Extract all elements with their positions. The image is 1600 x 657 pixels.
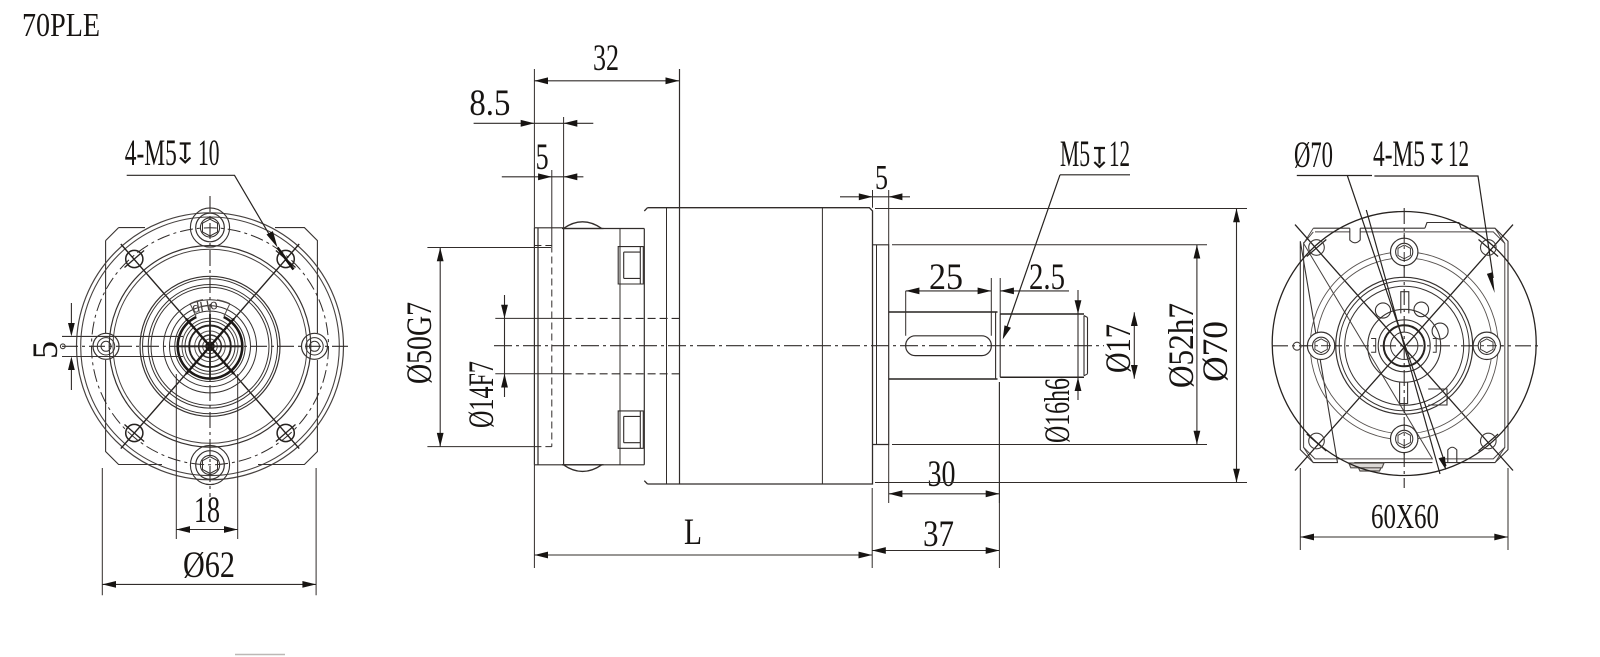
dim 2.5 xyxy=(999,278,1001,314)
dim dia62 xyxy=(102,468,316,595)
E boss screw xyxy=(1473,332,1500,359)
keyway on shaft xyxy=(906,336,992,356)
svg-text:4-M5: 4-M5 xyxy=(1373,134,1425,175)
front ring housing xyxy=(564,229,645,465)
leader dia70 xyxy=(1297,176,1446,467)
leader line for 4-M5 xyxy=(127,175,273,240)
gearbox body xyxy=(644,208,872,484)
screw dome top xyxy=(562,222,604,229)
output shaft dia16 xyxy=(1000,314,1084,377)
small holes on circle xyxy=(1375,303,1390,318)
corner tapped hole TR xyxy=(1481,240,1497,256)
bottom screw hole (socket head) xyxy=(190,445,229,484)
dim 37 xyxy=(998,382,1000,568)
corner hole cross ticks xyxy=(1307,240,1498,452)
diagonal X lines through M5 holes xyxy=(121,244,299,449)
dim dia17 xyxy=(1133,312,1135,378)
bolt circle (dash-dot) through screw holes xyxy=(92,228,329,465)
svg-text:70PLE: 70PLE xyxy=(22,7,100,44)
svg-text:5: 5 xyxy=(536,137,549,178)
dim 5 pilot xyxy=(873,190,889,245)
horizontal centerline xyxy=(62,345,352,347)
output pilot dia52 xyxy=(873,245,889,445)
outer flange circle (double line) xyxy=(77,213,344,480)
svg-text:5: 5 xyxy=(25,341,65,359)
svg-text:37: 37 xyxy=(923,514,954,555)
dim 8.5 xyxy=(474,122,594,124)
svg-text:10: 10 xyxy=(198,133,220,174)
dim 5 (slot) vertical at left xyxy=(70,303,72,390)
bottom edge notch xyxy=(1448,447,1457,462)
dim dia16h6 xyxy=(1077,290,1079,400)
M5 tapped hole bottom-left xyxy=(126,424,143,441)
boss centerline segments xyxy=(1403,233,1405,458)
boss circle (double line) xyxy=(109,245,311,447)
center hub circles xyxy=(140,276,280,416)
tiny hole left xyxy=(60,344,65,349)
thick cross hub segments xyxy=(178,314,242,379)
svg-text:60X60: 60X60 xyxy=(1371,497,1439,536)
housing circles xyxy=(1310,252,1498,440)
dim dia14F7 xyxy=(495,318,563,373)
dim 5 recess xyxy=(551,170,553,246)
axis centerline xyxy=(494,345,1104,347)
vertical centerline xyxy=(209,196,211,497)
output shaft dia17 xyxy=(889,312,998,379)
corner tapped hole TL xyxy=(1309,240,1325,256)
left screw hole xyxy=(93,333,119,359)
dim 18 xyxy=(176,374,237,539)
ext line flange back face up xyxy=(563,117,565,228)
M5 tapped hole top-right xyxy=(277,250,294,267)
big circle dia70 xyxy=(1272,212,1536,476)
M5 tapped hole top-left xyxy=(126,250,143,267)
dim 30 xyxy=(889,382,1000,503)
svg-text:Ø62: Ø62 xyxy=(183,545,235,586)
svg-text:30: 30 xyxy=(928,454,956,495)
svg-text:12: 12 xyxy=(1109,134,1130,175)
dim dia70 xyxy=(875,209,1247,483)
line body/ext 32 xyxy=(679,69,681,484)
S boss screw xyxy=(1391,425,1418,452)
svg-text:M5: M5 xyxy=(1060,134,1090,175)
screw dome bottom xyxy=(562,465,604,472)
notch box lower right xyxy=(1428,389,1447,405)
M5 hole cross ticks xyxy=(125,251,296,442)
svg-text:Ø70: Ø70 xyxy=(1195,321,1235,382)
bottom faint line xyxy=(235,654,285,656)
square plate outer edge xyxy=(1300,228,1508,462)
shaft step xyxy=(996,312,1001,379)
svg-text:Ø70: Ø70 xyxy=(1294,135,1333,176)
svg-text:Ø14F7: Ø14F7 xyxy=(461,361,501,428)
svg-text:L: L xyxy=(684,512,702,553)
dim dia50G7 xyxy=(427,248,551,447)
diagonal corner line 2 xyxy=(1295,225,1513,471)
keyway slot bottom xyxy=(1400,382,1408,404)
diagonal corner line 1 xyxy=(1295,225,1513,471)
svg-text:Ø50G7: Ø50G7 xyxy=(399,302,439,384)
small hole on centerline xyxy=(1293,342,1301,350)
N boss screw xyxy=(1391,238,1418,265)
svg-text:25: 25 xyxy=(929,257,963,298)
corner tapped hole BL xyxy=(1309,433,1325,449)
svg-text:2.5: 2.5 xyxy=(1029,257,1065,298)
screw section top xyxy=(618,247,643,284)
hidden recess dia50 edges xyxy=(534,246,551,447)
W boss screw xyxy=(1307,332,1334,359)
dim 25 keyway xyxy=(906,278,992,336)
square plate outline with chamfered corners xyxy=(106,228,318,465)
square plate inner edge xyxy=(1304,232,1505,459)
corner chamfer ticks xyxy=(1304,228,1505,462)
svg-text:Ø16h6: Ø16h6 xyxy=(1037,378,1077,443)
shaft end chamfer xyxy=(1084,316,1088,376)
side notches on boss circle xyxy=(1371,339,1436,353)
svg-text:18: 18 xyxy=(194,490,220,531)
thick X hub segments xyxy=(186,319,234,374)
top edge tab xyxy=(1425,223,1461,229)
M5 tapped hole bottom-right xyxy=(277,424,294,441)
output flange plate xyxy=(534,228,563,465)
slot 5 wide across left hole xyxy=(62,336,183,356)
top edge notch xyxy=(1350,228,1360,243)
dim dia52h7 xyxy=(892,245,1207,445)
svg-text:8.5: 8.5 xyxy=(469,83,510,124)
bottom edge tab xyxy=(1349,463,1384,471)
keyway slot top xyxy=(1401,292,1409,314)
dim 60X60 xyxy=(1300,468,1508,550)
top screw hole (socket head) xyxy=(190,208,229,247)
corner tapped hole BR xyxy=(1481,433,1497,449)
svg-text:12: 12 xyxy=(1448,134,1469,175)
dim 32 xyxy=(533,69,535,228)
hidden recess depth line (dashed) xyxy=(551,246,553,447)
leader 4-M5 xyxy=(1374,176,1493,278)
screw section bottom xyxy=(618,411,643,448)
dim L xyxy=(534,465,872,568)
hidden internal bore (dashed) xyxy=(564,318,680,373)
svg-text:5: 5 xyxy=(875,158,888,197)
svg-text:4-M5: 4-M5 xyxy=(125,133,177,174)
right screw hole xyxy=(302,333,328,359)
svg-text:dHo: dHo xyxy=(191,296,219,316)
svg-text:32: 32 xyxy=(593,38,619,79)
horizontal centerline xyxy=(1272,345,1538,347)
extra spoke line xyxy=(1366,210,1440,474)
vertical centerline xyxy=(1403,208,1405,488)
svg-text:Ø17: Ø17 xyxy=(1098,324,1138,373)
